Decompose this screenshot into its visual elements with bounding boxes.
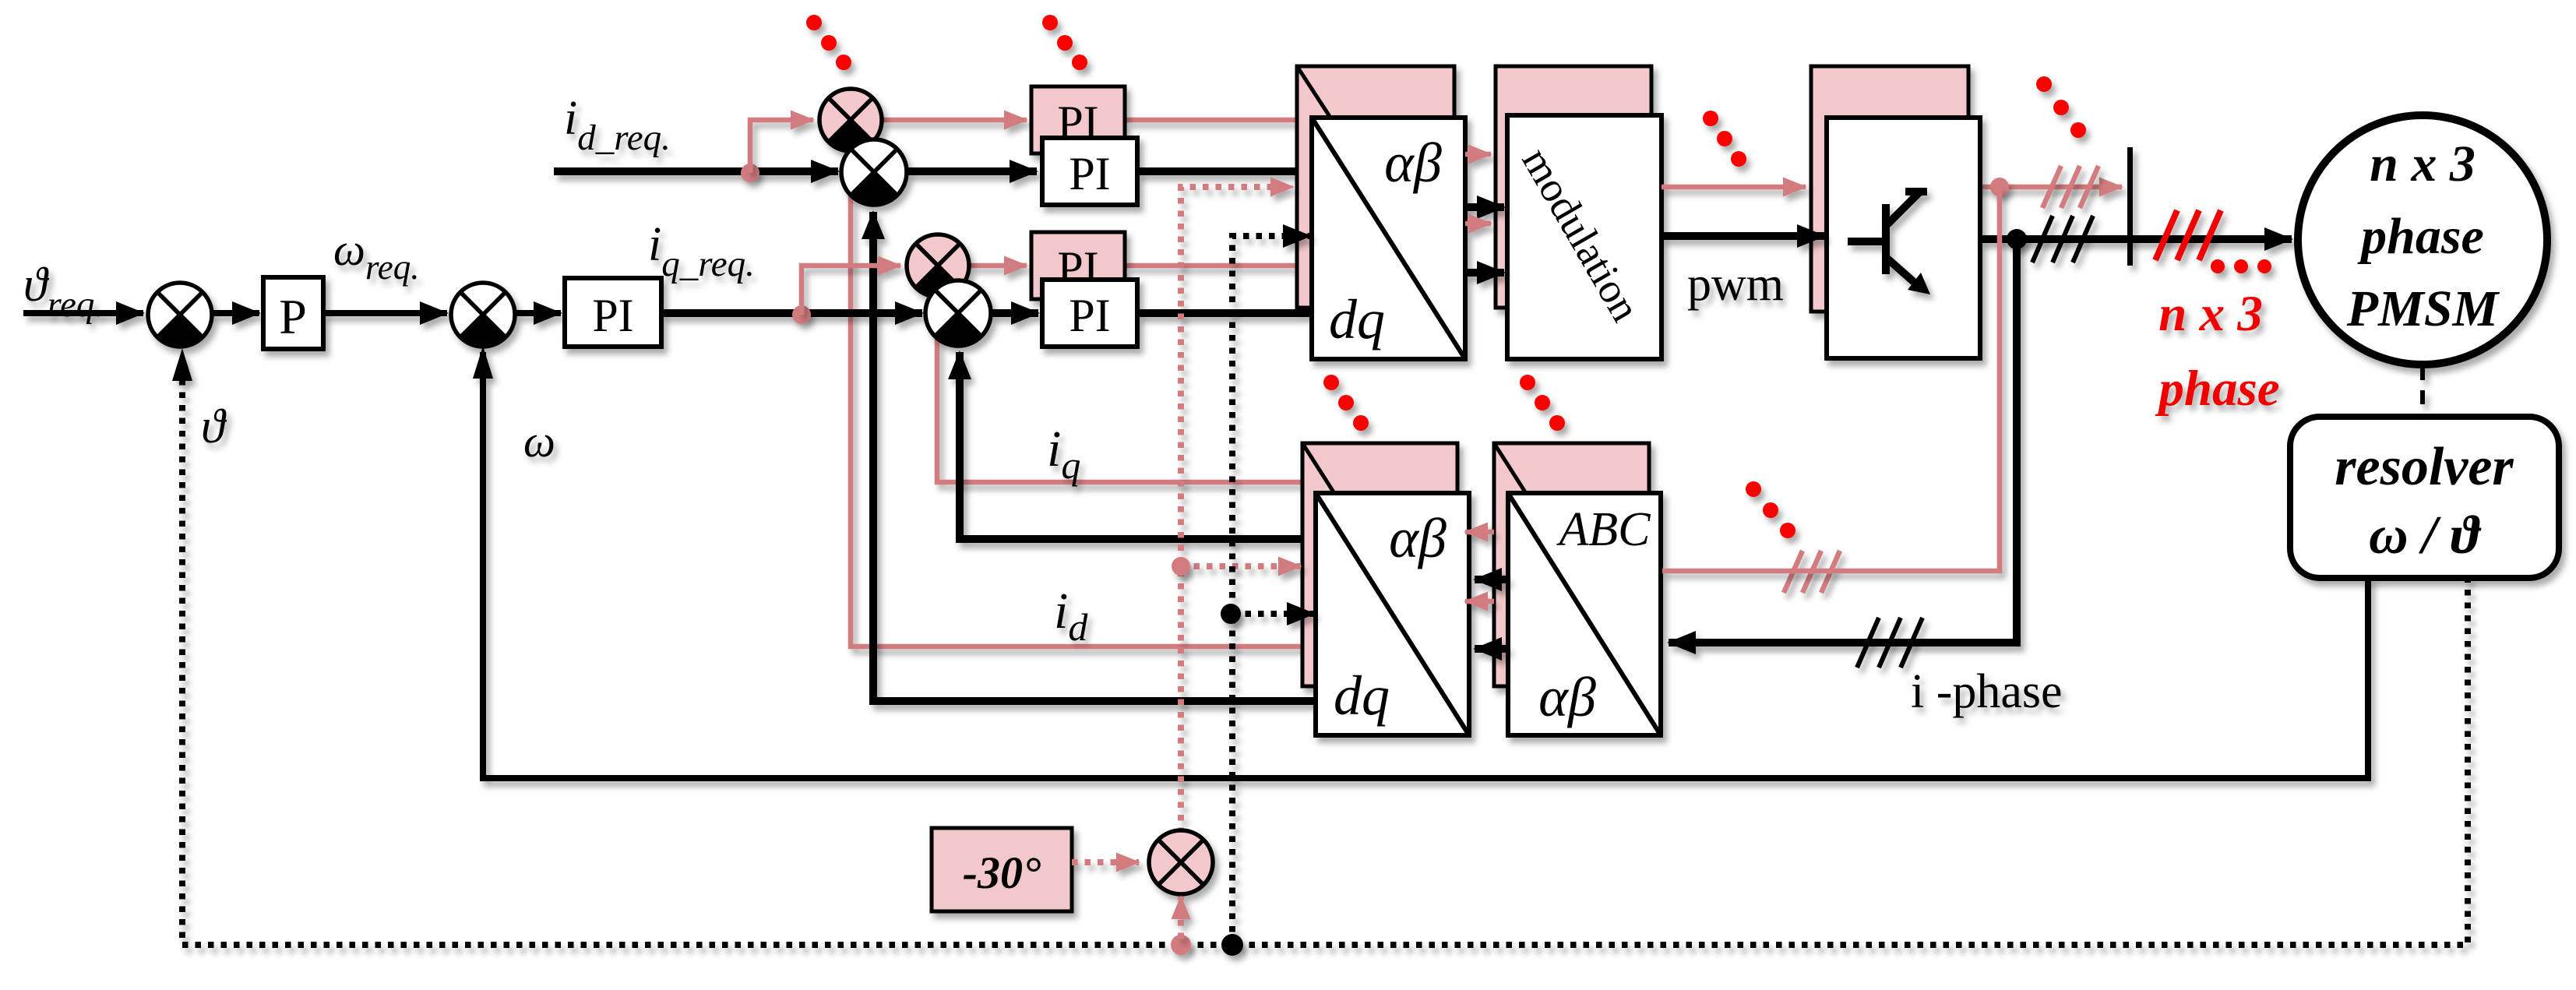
wire inverter output to PMSM (1980, 235, 2292, 243)
svg-text:dq: dq (1334, 664, 1390, 727)
svg-text:n x 3: n x 3 (2158, 286, 2263, 342)
pink junction dot on inverter pink output (1990, 178, 2009, 196)
wire pink ABC to dq-fb (upper) (1465, 530, 1494, 535)
pink wire P1d to pink PI1 (883, 118, 1027, 123)
label i_q (1047, 421, 1080, 487)
label i_q_req. (648, 218, 755, 284)
pink wire dq to modulation (upper) (1465, 152, 1491, 157)
wire black i_q feedback from dq block up into S2q (960, 352, 1316, 539)
block PI2 (1042, 280, 1137, 347)
svg-text:resolver: resolver (2335, 437, 2514, 497)
black dotted branch into dq feedback block (1232, 611, 1314, 617)
wire black ABC to dq-fb (alpha) (1475, 576, 1508, 583)
svg-text:n x 3: n x 3 (2370, 136, 2476, 192)
svg-text:PI: PI (1069, 290, 1110, 341)
dashed link PMSM to resolver (2420, 366, 2425, 417)
svg-text:phase: phase (2155, 361, 2279, 417)
pink shadow of ABC block (1494, 443, 1649, 686)
slash marks pink feedback (1784, 551, 1840, 593)
pink wire PI2 to dq block (1126, 263, 1299, 269)
block PI speed (565, 278, 661, 347)
wire dq to modulation (beta) (1465, 269, 1504, 277)
wire theta feedback (dotted) from resolver to summing junction S1 (172, 348, 2468, 945)
wire black i_d feedback from dq block up into S1d (873, 212, 1316, 701)
pink dot on theta dotted wire (1171, 935, 1191, 955)
block inverter (1827, 118, 1980, 358)
pink block PI1 (1031, 86, 1125, 153)
pink dotted wire -30 into multiplier (1072, 859, 1139, 865)
svg-text:pwm: pwm (1687, 258, 1784, 311)
label i_d_req. (564, 92, 671, 158)
pink wire PI1 to dq block (1126, 118, 1299, 123)
svg-text:PMSM: PMSM (2346, 280, 2500, 337)
pink block PI2 (1031, 232, 1125, 299)
red ellipsis right of modulation (1703, 111, 1746, 167)
label i-phase (1911, 665, 2063, 718)
red ellipsis below modulation (1520, 375, 1565, 431)
pink dotted wire from theta line up into multiplier (1178, 897, 1184, 939)
svg-text:P: P (279, 289, 307, 344)
black dotted angle wire vertical (1232, 236, 1310, 945)
slash marks black i-phase (1857, 618, 1922, 668)
label theta_req. (23, 259, 104, 325)
node omega label (523, 416, 555, 467)
red ellipsis above pink feedback wire (1746, 481, 1795, 538)
pink wire P2q to pink PI2 (970, 263, 1027, 269)
pink wire inverter output to bus bar (1968, 185, 2122, 190)
pink dotted branch into dq feedback block (1181, 563, 1301, 569)
label pwm (1687, 258, 1784, 311)
block ABC to alphabeta (1508, 493, 1661, 735)
wire black i-phase feedback to ABC block (1669, 239, 2017, 643)
wire pink i_q feedback from dq block to pink junction P2q (937, 284, 1302, 482)
summing junction S2q (925, 280, 991, 347)
wire pink ABC to dq-fb (lower) (1465, 599, 1494, 604)
svg-text:i -phase: i -phase (1911, 665, 2063, 718)
pink junction dot on dotted wire (1172, 557, 1190, 576)
wire pink i_d feedback from dq block to pink junction P1d (851, 167, 1316, 646)
pink shadow of modulation block (1496, 66, 1651, 308)
pink wire phase-current feedback to ABC block (1662, 187, 2000, 571)
pink wire branch from i_q_req to pink junction P2q (802, 266, 900, 315)
pink junction dot on i_d_req line (741, 164, 759, 182)
wire PI2 to dq block (1137, 309, 1313, 317)
svg-text:PI: PI (592, 290, 633, 341)
label n x 3 phase (red) (2155, 286, 2279, 417)
summing junction S1 (148, 283, 212, 347)
pink junction dot on i_q_req line (792, 305, 811, 324)
pink shadow of dq feedback block (1302, 443, 1457, 686)
wire pwm modulation to inverter (1662, 232, 1824, 240)
block dq transform forward (1312, 118, 1465, 359)
pink wire dq to modulation (lower) (1465, 221, 1491, 227)
slash marks black 3-phase (2032, 216, 2093, 262)
red ellipsis above PI1 (1042, 15, 1087, 70)
wire PI1 to dq block (1137, 167, 1313, 175)
PMSM machine circle (2298, 115, 2547, 365)
summing junction S1d (841, 139, 907, 206)
pink dotted angle wire (n-th set rotation) vertical (1181, 187, 1293, 833)
pink wire modulation to inverter (1662, 185, 1806, 190)
slash marks red n x 3 phase (2155, 210, 2221, 260)
wire omega feedback (solid) from resolver to summing junction S2 (473, 346, 2368, 778)
pink shadow of dq transform block (1297, 66, 1454, 308)
wire S2 to PI speed block (516, 310, 561, 316)
slash marks pink 3-phase (2042, 166, 2099, 208)
svg-text:ω: ω (523, 416, 555, 467)
block -30 degrees (932, 828, 1072, 911)
black junction dot on theta dotted wire (1221, 934, 1243, 956)
svg-text:-30°: -30° (963, 847, 1041, 898)
svg-text:αβ: αβ (1538, 666, 1596, 728)
block PI1 (1042, 138, 1137, 205)
pink summing junction P2q (907, 234, 969, 297)
red ellipsis above P1d (806, 15, 851, 70)
summing junction S2 (451, 283, 515, 347)
red ellipsis below dq block (1323, 375, 1369, 431)
svg-text:ABC: ABC (1556, 503, 1651, 556)
wire dq to modulation (alpha) (1465, 203, 1504, 211)
bus bar (2127, 147, 2133, 266)
red ellipsis right of inverter (2036, 76, 2086, 138)
pink wire branch from i_d_req to pink junction P1d (750, 120, 813, 173)
wire S1d to PI1 (907, 167, 1037, 175)
svg-text:αβ: αβ (1389, 507, 1447, 569)
label omega_req. (333, 224, 420, 287)
svg-text:phase: phase (2357, 208, 2484, 265)
wire P block to S2 (323, 310, 447, 316)
wire input theta_req into S1 (23, 310, 143, 316)
transistor symbol inside inverter (1848, 192, 1930, 294)
svg-text:dq: dq (1329, 288, 1385, 351)
wire black ABC to dq-fb (beta) (1475, 645, 1508, 653)
block P (263, 277, 323, 349)
svg-text:PI: PI (1069, 148, 1110, 199)
junction dot on inverter output (2007, 229, 2027, 249)
black junction dot on dotted wire branch (1221, 604, 1241, 624)
wire S2q to PI2 (991, 309, 1038, 317)
pink multiplier junction (1149, 830, 1213, 894)
wire i_d_req input to S1d (554, 167, 838, 175)
pink shadow of inverter block (1811, 66, 1968, 312)
block modulation (1507, 115, 1662, 359)
node theta label (201, 400, 227, 453)
pink summing junction P1d (819, 89, 882, 151)
svg-text:αβ: αβ (1384, 132, 1442, 194)
svg-text:ω / ϑ: ω / ϑ (2369, 506, 2482, 565)
red ellipsis dots near PMSM wire (2211, 259, 2271, 273)
block dq transform feedback (1316, 493, 1469, 735)
svg-text:ϑ: ϑ (201, 400, 227, 453)
wire PI speed output i_q_req to S2q (661, 309, 922, 317)
block resolver (2290, 417, 2559, 578)
wire S1 to P block (213, 310, 259, 316)
label i_d (1054, 583, 1088, 649)
